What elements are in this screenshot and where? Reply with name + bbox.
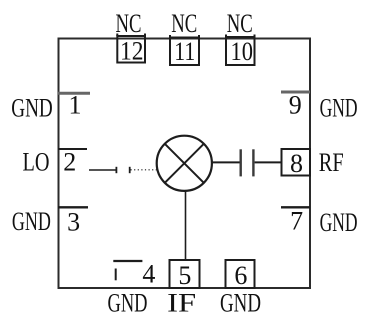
LO dotted wire to mixer: [131, 169, 158, 171]
pin 4 bar: [113, 260, 142, 262]
pin 7 tick: [281, 206, 310, 208]
mixer circle: [157, 136, 212, 191]
svg-text:11: 11: [174, 37, 195, 66]
svg-text:GND: GND: [320, 208, 358, 237]
mixer X diagonal 2: [165, 144, 204, 183]
RF wire capacitor to pin 8: [255, 161, 282, 163]
pin 11 box: [170, 35, 199, 65]
pin 3 tick: [58, 206, 88, 208]
pin 12 box: [117, 34, 145, 63]
svg-text:9: 9: [289, 91, 302, 120]
LO wire solid segment: [89, 169, 116, 171]
pin 6 box: [226, 260, 255, 288]
svg-text:GND: GND: [320, 94, 358, 123]
mixer X diagonal 1: [165, 144, 204, 183]
svg-text:12: 12: [120, 37, 144, 66]
svg-text:10: 10: [231, 37, 254, 66]
capacitor plate 1: [239, 149, 241, 176]
svg-text:NC: NC: [171, 9, 197, 38]
pin 5 box: [170, 260, 200, 288]
IF wire from mixer to pin 5: [185, 191, 187, 260]
RF wire mixer to capacitor: [212, 161, 240, 163]
svg-text:GND: GND: [108, 289, 148, 318]
svg-text:5: 5: [178, 261, 191, 290]
pin 1 tick: [58, 92, 90, 95]
package outline: [59, 39, 311, 289]
svg-text:6: 6: [234, 261, 247, 290]
svg-text:RF: RF: [319, 148, 344, 177]
svg-text:1: 1: [69, 91, 82, 120]
svg-text:LO: LO: [23, 148, 50, 177]
svg-text:GND: GND: [11, 94, 53, 123]
pin 8 box: [282, 149, 311, 176]
svg-text:NC: NC: [227, 9, 253, 38]
svg-text:GND: GND: [220, 289, 261, 318]
svg-text:4: 4: [142, 260, 155, 289]
svg-text:2: 2: [63, 148, 76, 177]
capacitor plate 2: [252, 149, 254, 176]
pin 10 box: [226, 35, 255, 66]
svg-text:3: 3: [67, 208, 80, 237]
svg-text:GND: GND: [12, 207, 51, 236]
svg-text:IF: IF: [167, 288, 196, 317]
LO wire break tick left: [115, 167, 117, 173]
pin 2 tick: [58, 148, 87, 150]
svg-text:8: 8: [290, 149, 303, 178]
pin 4 stub tick: [115, 269, 117, 281]
LO wire break tick right: [129, 167, 131, 173]
svg-text:NC: NC: [116, 9, 142, 38]
pin 9 tick: [281, 91, 310, 94]
svg-text:7: 7: [290, 207, 303, 236]
